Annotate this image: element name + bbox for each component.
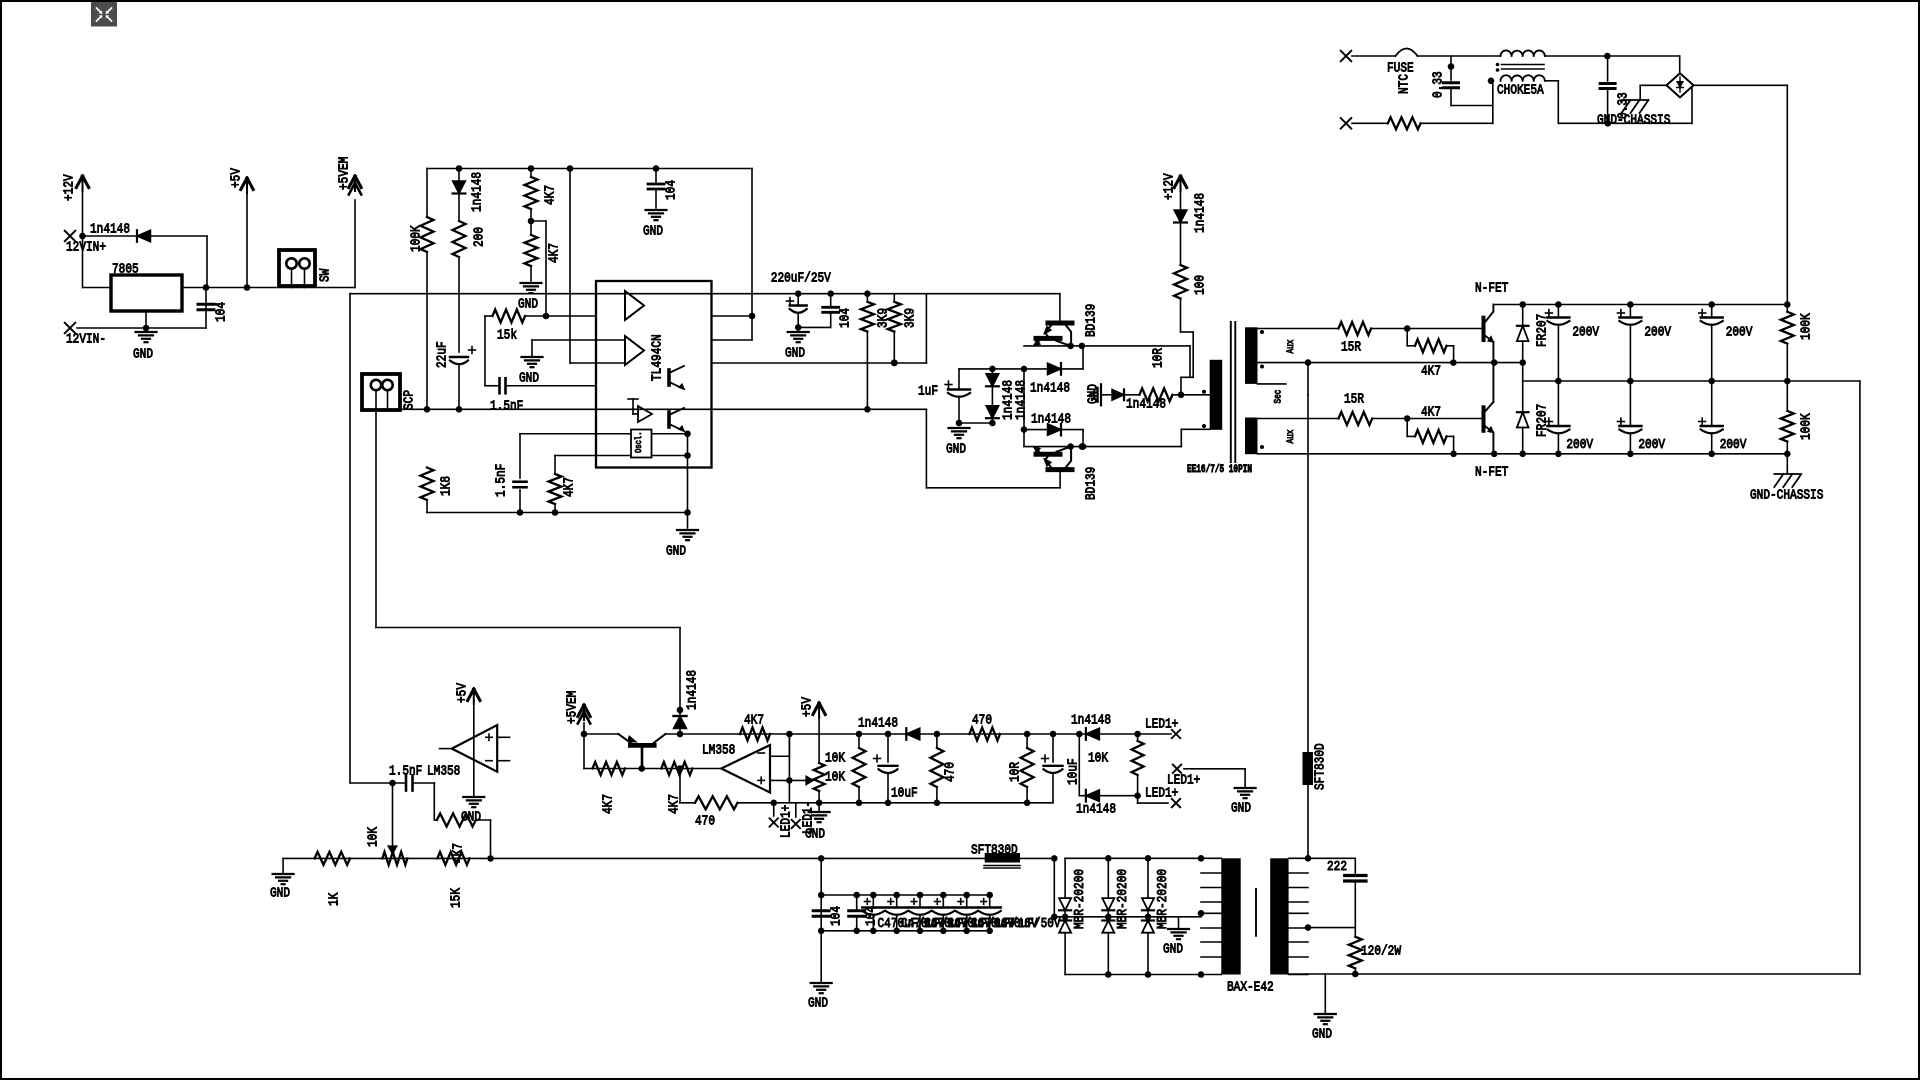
- svg-text:LM358: LM358: [427, 763, 460, 779]
- svg-text:15K: 15K: [448, 888, 464, 908]
- svg-text:MBR-20200: MBR-20200: [1155, 869, 1171, 929]
- svg-text:104: 104: [837, 308, 853, 328]
- svg-text:TL494CN: TL494CN: [649, 334, 665, 381]
- svg-text:4K7: 4K7: [542, 185, 558, 205]
- svg-text:10K: 10K: [825, 750, 845, 766]
- svg-text:15R: 15R: [1341, 339, 1361, 355]
- svg-text:+5VEM: +5VEM: [564, 691, 580, 724]
- svg-text:GND: GND: [1312, 1026, 1332, 1042]
- svg-text:GND: GND: [643, 223, 663, 239]
- svg-text:10uF: 10uF: [891, 785, 918, 801]
- svg-text:1n4148: 1n4148: [1031, 411, 1071, 427]
- svg-text:+5V: +5V: [228, 168, 244, 188]
- svg-text:BAX-E42: BAX-E42: [1227, 979, 1274, 995]
- svg-text:4K7: 4K7: [1421, 363, 1441, 379]
- svg-text:1K: 1K: [326, 892, 342, 906]
- svg-text:GND: GND: [519, 370, 539, 386]
- svg-text:SFT830D: SFT830D: [1312, 743, 1328, 790]
- svg-text:GND: GND: [1163, 941, 1183, 957]
- svg-text:CHOKE5A: CHOKE5A: [1497, 82, 1544, 98]
- svg-text:200V: 200V: [1638, 437, 1665, 453]
- svg-text:10R: 10R: [1007, 762, 1023, 782]
- svg-text:12VIN-: 12VIN-: [66, 331, 106, 347]
- svg-text:200V: 200V: [1566, 437, 1593, 453]
- svg-text:GND: GND: [805, 826, 825, 842]
- svg-text:SW: SW: [317, 268, 333, 282]
- svg-text:1n4148: 1n4148: [1126, 396, 1166, 412]
- svg-text:200V: 200V: [1644, 324, 1671, 340]
- svg-text:GND-CHASSIS: GND-CHASSIS: [1597, 112, 1670, 128]
- svg-text:FR207: FR207: [1534, 404, 1550, 437]
- svg-text:1n4148: 1n4148: [1071, 712, 1111, 728]
- svg-text:SFT830D: SFT830D: [971, 842, 1018, 858]
- svg-text:N-FET: N-FET: [1475, 464, 1508, 480]
- svg-text:104: 104: [213, 302, 229, 322]
- svg-text:200V: 200V: [1726, 324, 1753, 340]
- svg-text:1.5nF: 1.5nF: [389, 763, 422, 779]
- svg-text:GND: GND: [461, 809, 481, 825]
- svg-text:Oscl.: Oscl.: [634, 432, 644, 454]
- svg-text:7805: 7805: [112, 261, 139, 277]
- svg-text:SCP: SCP: [401, 390, 417, 410]
- svg-text:1n4148: 1n4148: [469, 172, 485, 212]
- svg-text:+5V: +5V: [454, 683, 470, 703]
- svg-text:+5VEM: +5VEM: [336, 157, 352, 190]
- svg-text:470: 470: [942, 762, 958, 782]
- svg-text:Sec: Sec: [1273, 390, 1285, 404]
- svg-text:GND: GND: [1231, 800, 1251, 816]
- svg-text:GND: GND: [1085, 384, 1101, 404]
- svg-text:4K7: 4K7: [744, 712, 764, 728]
- svg-text:1K8: 1K8: [438, 476, 454, 496]
- svg-text:0.33: 0.33: [1430, 71, 1446, 98]
- svg-text:1n4148: 1n4148: [90, 221, 130, 237]
- svg-text:100K: 100K: [408, 225, 424, 252]
- svg-text:10R: 10R: [1150, 348, 1166, 368]
- svg-text:15k: 15k: [497, 327, 517, 343]
- svg-text:EE16/7/5 10PIN: EE16/7/5 10PIN: [1187, 464, 1252, 476]
- svg-text:MBR-20200: MBR-20200: [1115, 869, 1131, 929]
- svg-text:BD139: BD139: [1083, 304, 1099, 337]
- svg-text:100K: 100K: [1798, 413, 1814, 440]
- svg-text:470: 470: [972, 712, 992, 728]
- svg-text:1.5nF: 1.5nF: [490, 398, 523, 414]
- svg-text:+12V: +12V: [1161, 173, 1177, 200]
- svg-text:1n4148: 1n4148: [1013, 380, 1029, 420]
- svg-text:1n4148: 1n4148: [1030, 380, 1070, 396]
- svg-text:4K7: 4K7: [600, 794, 616, 814]
- svg-text:4K7: 4K7: [1421, 404, 1441, 420]
- svg-text:200V: 200V: [1572, 324, 1599, 340]
- svg-text:220uF/25V: 220uF/25V: [771, 270, 831, 286]
- svg-text:10K: 10K: [825, 769, 845, 785]
- svg-text:1.5nF: 1.5nF: [493, 464, 509, 497]
- svg-text:200: 200: [471, 227, 487, 247]
- svg-text:C470uF/50V: C470uF/50V: [994, 916, 1061, 932]
- svg-text:1n4148: 1n4148: [1192, 193, 1208, 233]
- svg-text:LED1+: LED1+: [1167, 772, 1200, 788]
- svg-text:104: 104: [663, 180, 679, 200]
- svg-text:104: 104: [828, 906, 844, 926]
- svg-text:4K7: 4K7: [561, 477, 577, 497]
- svg-text:LED1+: LED1+: [1145, 716, 1178, 732]
- svg-text:120/2W: 120/2W: [1361, 943, 1401, 959]
- svg-text:+12V: +12V: [61, 174, 77, 201]
- svg-text:10K: 10K: [1088, 750, 1108, 766]
- svg-text:GND-CHASSIS: GND-CHASSIS: [1750, 487, 1823, 503]
- svg-text:Aux: Aux: [1285, 430, 1297, 444]
- svg-text:1n4148: 1n4148: [1076, 801, 1116, 817]
- svg-text:MBR-20200: MBR-20200: [1072, 869, 1088, 929]
- svg-text:NTC: NTC: [1396, 74, 1412, 94]
- svg-text:LM358: LM358: [702, 742, 735, 758]
- svg-text:1uF: 1uF: [918, 383, 938, 399]
- svg-text:N-FET: N-FET: [1475, 280, 1508, 296]
- svg-text:GND: GND: [518, 296, 538, 312]
- svg-text:BD139: BD139: [1083, 467, 1099, 500]
- svg-text:GND: GND: [808, 995, 828, 1011]
- svg-text:Aux: Aux: [1285, 340, 1297, 354]
- svg-text:100: 100: [1192, 275, 1208, 295]
- svg-text:GND: GND: [785, 345, 805, 361]
- svg-text:4K7: 4K7: [546, 243, 562, 263]
- svg-text:100K: 100K: [1798, 313, 1814, 340]
- svg-text:GND: GND: [946, 441, 966, 457]
- svg-text:3K9: 3K9: [902, 308, 918, 328]
- svg-text:10K: 10K: [365, 827, 381, 847]
- svg-text:GND: GND: [133, 346, 153, 362]
- svg-text:470: 470: [695, 813, 715, 829]
- svg-text:15R: 15R: [1344, 391, 1364, 407]
- svg-text:GND: GND: [270, 885, 290, 901]
- svg-text:200V: 200V: [1720, 437, 1747, 453]
- svg-text:1n4148: 1n4148: [684, 670, 700, 710]
- svg-text:12VIN+: 12VIN+: [66, 239, 106, 255]
- svg-text:22uF: 22uF: [434, 341, 450, 368]
- svg-text:GND: GND: [666, 543, 686, 559]
- svg-text:+5V: +5V: [799, 697, 815, 717]
- svg-text:222: 222: [1327, 859, 1347, 875]
- svg-text:1n4148: 1n4148: [858, 715, 898, 731]
